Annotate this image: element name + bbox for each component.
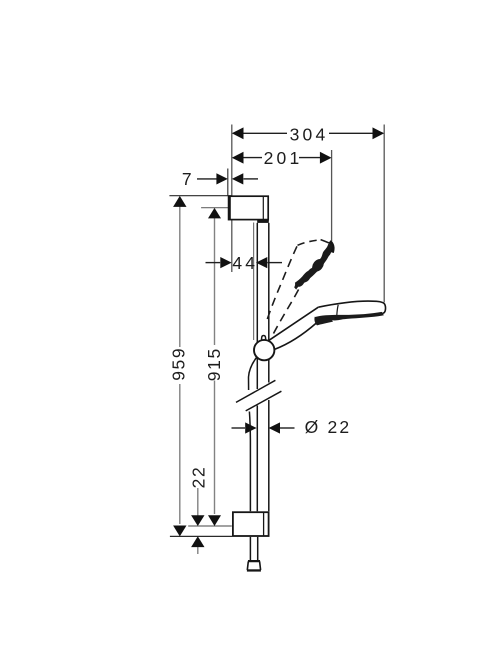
svg-text:Ø 22: Ø 22 [305, 417, 352, 437]
svg-text:201: 201 [264, 148, 303, 168]
svg-text:959: 959 [169, 347, 189, 381]
svg-text:915: 915 [204, 347, 224, 381]
svg-text:7: 7 [182, 169, 195, 189]
svg-text:22: 22 [188, 466, 208, 489]
svg-text:44: 44 [232, 253, 258, 273]
svg-text:304: 304 [290, 125, 329, 145]
